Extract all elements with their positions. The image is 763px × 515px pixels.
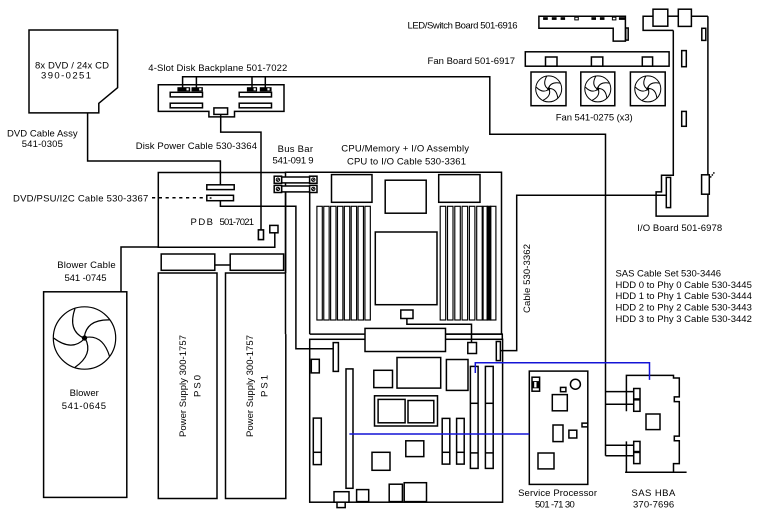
SAS HBA bottom edge bbox=[625, 471, 687, 473]
fan board connector square 3 bbox=[642, 57, 652, 66]
service processor board 501-7130 bbox=[529, 371, 588, 484]
fan board 501-6917 bbox=[525, 52, 669, 66]
wire: blue cable motherboard to service processor bbox=[349, 433, 529, 435]
memory DIMM bank right (7 slots + composite) bbox=[440, 206, 496, 320]
mobo tall slot right 2 bbox=[485, 366, 493, 468]
svg-text:HDD 3 to Phy 3 Cable 530-3442: HDD 3 to Phy 3 Cable 530-3442 bbox=[616, 314, 752, 325]
bus bar 541-0919 bar 2 bbox=[282, 186, 311, 192]
mobo mid slot pair 1 bbox=[442, 418, 450, 464]
assembly top-right rect bbox=[439, 175, 480, 203]
wire: disk power cable 530-3364 backplane to PDB connector bbox=[221, 114, 261, 229]
SAS HBA connector bay 2 bbox=[634, 441, 640, 463]
svg-text:SAS Cable Set 530-3446: SAS Cable Set 530-3446 bbox=[616, 269, 722, 280]
wire: bus bar left drop to PS1 bbox=[285, 192, 287, 273]
svg-text:Service Processor: Service Processor bbox=[518, 488, 597, 499]
svg-text:Blower Cable: Blower Cable bbox=[57, 260, 115, 271]
mobo small rect top-left bbox=[311, 359, 319, 373]
AC inlet rect left bbox=[161, 254, 215, 270]
bus bar 2 right screw square bbox=[310, 185, 317, 192]
CPU/Memory + I/O assembly box bbox=[286, 172, 502, 334]
svg-text:CPU/Memory + I/O Assembly: CPU/Memory + I/O Assembly bbox=[341, 144, 469, 155]
svg-text:4-Slot Disk Backplane 501-7022: 4-Slot Disk Backplane 501-7022 bbox=[148, 63, 287, 74]
svg-text:501-7021: 501-7021 bbox=[220, 217, 255, 228]
svg-text:Fan Board 501-6917: Fan Board 501-6917 bbox=[428, 56, 516, 67]
svg-text:Blower: Blower bbox=[70, 388, 99, 399]
svg-text:PDB: PDB bbox=[191, 217, 214, 228]
backplane disk slot row2 left bbox=[170, 92, 202, 97]
wire: DVD cable assy 541-0305 from DVD box to PDB bar1 bbox=[88, 113, 221, 185]
I/O board edge connector B bbox=[682, 51, 687, 67]
bus bar 2 left screw square bbox=[274, 185, 281, 192]
wire: SAS cable trunk from backplane to SAS HBA bbox=[183, 77, 606, 456]
fan 2 blades bbox=[585, 76, 611, 102]
svg-text:370-7696: 370-7696 bbox=[633, 500, 674, 511]
PDB connector bar 1 bbox=[207, 185, 234, 190]
fan 1 box 541-0275 bbox=[531, 72, 566, 106]
svg-text:Disk Power Cable 530-3364: Disk Power Cable 530-3364 bbox=[136, 141, 257, 152]
fan 2 box bbox=[581, 72, 615, 106]
mobo left slot (lower) bbox=[313, 418, 321, 465]
LED hollow marks bbox=[575, 17, 579, 20]
svg-text:541-0305: 541-0305 bbox=[22, 139, 63, 150]
mobo bottom connector 3 bbox=[389, 484, 402, 501]
SP right edge notch bbox=[582, 423, 588, 427]
fan 3 box bbox=[630, 72, 665, 106]
backplane SAS connector black pair left bbox=[177, 87, 203, 91]
wire: backplane connector drop 3 bbox=[251, 77, 253, 88]
svg-text:501 -71 30: 501 -71 30 bbox=[535, 499, 575, 510]
I/O board edge connector C bbox=[682, 111, 687, 126]
wire: bus link assembly to motherboard right bbox=[446, 334, 503, 339]
mobo small rect A bbox=[374, 370, 393, 387]
assembly top-middle rect bbox=[385, 180, 426, 213]
wire: bus bar right drop to assembly bottom bbox=[309, 192, 311, 334]
I/O board bottom right connector with tick bbox=[702, 175, 710, 194]
mobo tall slot left bbox=[346, 369, 353, 488]
wire: connector link square1-square2 bbox=[668, 15, 679, 17]
SAS HBA 370-7696 body outline bbox=[626, 375, 679, 472]
wire: backplane connector drop 4 bbox=[264, 77, 266, 88]
wire: blower cable 541-0745 bbox=[121, 247, 158, 292]
motherboard (I/O subassembly) board bbox=[310, 339, 503, 502]
SP square 1 bbox=[552, 395, 567, 411]
wire: backplane connector drop 2 bbox=[195, 77, 197, 88]
svg-text:SAS HBA: SAS HBA bbox=[631, 488, 676, 499]
svg-text:CPU to I/O Cable 530-3361: CPU to I/O Cable 530-3361 bbox=[347, 157, 466, 168]
mobo dual-socket inner left bbox=[378, 399, 405, 422]
wire: SAS cable stub HDD3 bbox=[606, 455, 634, 457]
disk backplane notch connector bbox=[214, 108, 228, 115]
CPU bottom connector square bbox=[401, 310, 413, 319]
PDB board 501-7021 outline (open right side) bbox=[158, 173, 285, 248]
bus bar screw glyphs bbox=[276, 178, 315, 191]
I/O board top connector square 1 bbox=[653, 9, 668, 26]
svg-text:HDD 0 to Phy 0 Cable 530-3445: HDD 0 to Phy 0 Cable 530-3445 bbox=[616, 280, 752, 291]
backplane SAS connector black pair right bbox=[247, 87, 272, 91]
wire: SAS cable stub HDD2 bbox=[606, 444, 634, 446]
mobo mid slot pair 2 bbox=[457, 418, 465, 464]
svg-text:I/O Board 501-6978: I/O Board 501-6978 bbox=[637, 223, 722, 234]
PDB bar2 inner tick bbox=[210, 197, 212, 198]
bus bar 1 right screw square bbox=[310, 176, 317, 183]
mobo tall slot right 1 bbox=[470, 366, 478, 468]
mobo bottom connector 2 bbox=[357, 490, 369, 502]
svg-text:Power Supply 300-1757: Power Supply 300-1757 bbox=[245, 335, 256, 437]
backplane disk slot row3 left bbox=[170, 103, 202, 108]
SP circle top-right bbox=[570, 379, 580, 389]
svg-text:PS1: PS1 bbox=[259, 375, 270, 397]
fan 1 blades bbox=[536, 76, 562, 102]
PDB small connector with drop to PDB bottom edge bbox=[270, 225, 278, 232]
wire: CPU connector to motherboard connector bbox=[407, 319, 472, 343]
mobo dual-socket inner right bbox=[408, 401, 434, 423]
wire: LED board link to I/O board left edge bbox=[643, 16, 673, 30]
svg-text:HDD 2 to Phy 2 Cable 530-3443: HDD 2 to Phy 2 Cable 530-3443 bbox=[616, 303, 752, 314]
mobo small square D bbox=[406, 441, 424, 457]
SP small rect bbox=[561, 387, 566, 391]
bus bar 541-0919 bar 1 bbox=[282, 177, 311, 183]
PDB connector bar 2 bbox=[207, 195, 234, 200]
I/O board top small connector bbox=[702, 28, 706, 40]
svg-text:541-091 9: 541-091 9 bbox=[273, 156, 314, 167]
svg-text:541 -0745: 541 -0745 bbox=[65, 273, 107, 284]
svg-text:390-0251: 390-0251 bbox=[41, 71, 91, 82]
AC inlet rect right bbox=[230, 254, 283, 270]
svg-text:Fan 541-0275 (x3): Fan 541-0275 (x3) bbox=[556, 112, 633, 123]
mobo wide rect B bbox=[397, 358, 441, 389]
fan 3 blades bbox=[635, 76, 661, 102]
I/O board 501-6978 outline bbox=[656, 16, 708, 216]
LED marks on top edge bbox=[543, 17, 625, 20]
SAS HBA center square bbox=[646, 414, 660, 430]
LED/switch board right thin rect bbox=[626, 28, 629, 40]
svg-text:HDD 1 to Phy 1 Cable 530-3444: HDD 1 to Phy 1 Cable 530-3444 bbox=[616, 291, 752, 302]
wire: SAS cable stub HDD1 bbox=[606, 403, 634, 405]
svg-text:DVD/PSU/I2C Cable 530-3367: DVD/PSU/I2C Cable 530-3367 bbox=[13, 194, 148, 205]
motherboard top connector square bbox=[468, 343, 477, 354]
SP small square 3 bbox=[569, 430, 577, 438]
assembly top-left rect bbox=[332, 175, 373, 203]
wire: cable 530-3362 from I/O board to motherboard bbox=[500, 195, 666, 350]
svg-text:LED/Switch Board 501-6916: LED/Switch Board 501-6916 bbox=[408, 21, 518, 32]
mobo narrow vertical bar (crosses top edge) bbox=[333, 343, 338, 372]
SP black connector top-left bbox=[532, 377, 540, 391]
4-slot disk backplane box 501-7022 with bottom notch bbox=[158, 85, 284, 117]
wire: blue cable motherboard to SAS HBA bbox=[475, 363, 649, 380]
wire: square2 to I/O board right edge bbox=[691, 15, 708, 17]
svg-text:541-0645: 541-0645 bbox=[62, 401, 106, 412]
backplane disk slot row3 right bbox=[239, 103, 271, 108]
blower fan icon bbox=[53, 307, 115, 369]
SAS HBA connector bay 1 bbox=[634, 389, 640, 412]
backplane disk slot row2 right bbox=[239, 92, 271, 97]
wire: SAS cable stub HDD0 bbox=[606, 391, 634, 393]
mobo rect C bbox=[446, 360, 468, 391]
CPU big square bbox=[375, 232, 437, 305]
blower box bbox=[44, 292, 127, 498]
memory DIMM bank left (8 slots) bbox=[317, 206, 370, 320]
wire: PDB bar2 cable to motherboard bar bbox=[220, 201, 333, 349]
svg-text:DVD Cable Assy: DVD Cable Assy bbox=[7, 128, 78, 139]
svg-text:PS0: PS0 bbox=[192, 375, 203, 397]
power supply PS1 box bbox=[226, 273, 286, 499]
mobo bottom connector 4 bbox=[404, 483, 426, 502]
motherboard right edge thin connector bbox=[496, 342, 500, 361]
mobo bottom connector 1 (protruding) bbox=[334, 492, 349, 503]
svg-text:Power Supply 300-1757: Power Supply 300-1757 bbox=[178, 335, 189, 437]
wide bus-bar rect between assembly and motherboard bbox=[365, 328, 446, 351]
power supply PS0 box bbox=[158, 273, 217, 499]
mobo square E bbox=[372, 452, 390, 470]
svg-text:Bus Bar: Bus Bar bbox=[278, 144, 313, 155]
fan board connector square 2 bbox=[591, 57, 602, 66]
svg-text:Cable 530-3362: Cable 530-3362 bbox=[522, 244, 533, 313]
bus bar 1 left screw square bbox=[274, 176, 281, 183]
PDB small vertical connector (disk power) bbox=[258, 230, 263, 240]
wire: link between AC inlets bbox=[215, 264, 230, 266]
mobo dual-socket outer rect bbox=[375, 396, 438, 426]
I/O board bottom thin slot bbox=[666, 177, 670, 207]
SP rect 2 bbox=[553, 425, 563, 442]
LED/switch board 501-6916 L-shape bbox=[539, 16, 626, 41]
SP square bottom-left bbox=[538, 453, 554, 469]
I/O board top connector square 2 bbox=[678, 9, 691, 26]
fan board connector square 1 bbox=[546, 57, 558, 66]
DVD drive box 8x DVD/24x CD 390-0251 bbox=[29, 30, 118, 113]
wire: dashed DVD/PSU/I2C cable 530-3367 bbox=[152, 197, 207, 199]
